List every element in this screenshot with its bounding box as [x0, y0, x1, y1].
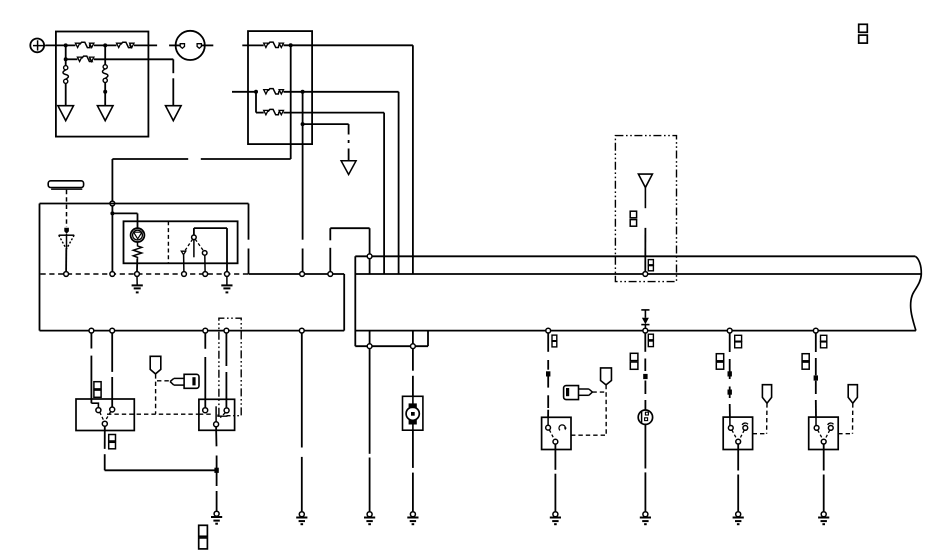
frame box left bottom [40, 330, 345, 332]
splice j2 [546, 371, 550, 376]
connector squares c1 [94, 382, 101, 389]
connector squares c8 [630, 353, 638, 360]
sub terminal s1 [369, 331, 371, 344]
switch blade b [195, 239, 203, 250]
arrow mark [64, 228, 69, 234]
bus solid segment [249, 273, 345, 275]
junction dot B4 [301, 122, 305, 126]
L1 common [102, 421, 107, 426]
switch terminal b [202, 251, 207, 256]
S4 blade dashed [825, 430, 830, 439]
L1 blade dashed [106, 412, 110, 419]
splice j3 [643, 374, 647, 379]
wire S3 common down [737, 444, 739, 450]
circuit breaker CB2 [104, 45, 106, 64]
wire CB1-ground [65, 83, 67, 105]
wire s2-motor [412, 349, 414, 371]
wire B3 drop [302, 92, 304, 124]
bus terminal n6 [225, 272, 230, 277]
flag lead S4f [852, 403, 854, 434]
connector squares c5 [630, 211, 636, 218]
switch terminal a [181, 251, 186, 255]
fuse F1 [75, 43, 79, 47]
ground G7 [299, 512, 304, 517]
connector squares c4 [552, 335, 557, 341]
ground G10 [553, 512, 558, 517]
frame terminal t5 [299, 328, 304, 333]
switch pivot [193, 228, 195, 235]
instrument partition [167, 221, 169, 263]
L2 blade [215, 406, 217, 422]
splice j4 [728, 371, 732, 376]
wire node-lamp [112, 212, 137, 214]
harness top line [355, 255, 915, 257]
wire diode-bus [65, 249, 67, 272]
connector squares c10 [716, 354, 723, 361]
diode triangle [59, 234, 74, 236]
wire B1 drop [290, 45, 292, 159]
sub terminal s2 [412, 331, 414, 344]
junction dot A4 [103, 90, 107, 94]
wire F1-F2 [94, 44, 117, 46]
relay box L2 [199, 399, 235, 430]
key symbol K1 [184, 374, 199, 388]
fuse box A [56, 32, 148, 137]
L1 terminal 1 [96, 408, 101, 413]
frame terminal t4 [224, 328, 229, 333]
flag symbol S2f [601, 368, 612, 385]
relay box L1 [76, 399, 134, 431]
diode D1 [641, 309, 649, 311]
wire F6 out [284, 112, 385, 114]
harness terminal h4 [643, 328, 648, 333]
ground G8 [367, 512, 372, 517]
wire F5 run [303, 91, 399, 93]
ground G9 [410, 512, 415, 517]
fuse box B [248, 31, 312, 144]
connector squares c12 [802, 354, 809, 361]
wire t4-relay [225, 333, 227, 366]
fuse F4 [264, 43, 268, 47]
frame terminal t2 [110, 328, 115, 333]
wire t5-ground [301, 333, 303, 448]
harness terminal h6 [813, 328, 818, 333]
junction dot A1 [64, 43, 68, 47]
S3 blade [732, 430, 737, 439]
S3 terminal 1 [729, 417, 731, 425]
wire drop A1 [65, 45, 67, 59]
S2 common [553, 439, 558, 444]
fuse F2 [117, 43, 121, 47]
frame box right side [343, 274, 345, 331]
wire L2 common down [215, 427, 217, 447]
bus terminal n7 [300, 272, 305, 277]
terminal on frame top [110, 201, 115, 206]
antenna symbol [638, 174, 652, 187]
L2 blade dashed [220, 413, 225, 418]
splice j5 [728, 390, 732, 395]
harness terminal h1 [367, 254, 372, 259]
wire t3-relay [204, 333, 206, 349]
wire j1-ground [216, 473, 218, 487]
ground G4 [136, 276, 138, 285]
wire lamp-bus [136, 259, 138, 272]
wire F4 out [284, 44, 413, 46]
wire S4 common down [823, 444, 825, 450]
switch blade a [185, 239, 192, 250]
ground G3 [166, 106, 182, 121]
junction dot B3 [301, 90, 305, 94]
flag symbol S1 [150, 356, 161, 374]
dashed lead pill [66, 190, 68, 227]
wire B4 drop [302, 124, 304, 240]
circuit breaker CB1 [65, 59, 67, 65]
ignition switch [176, 31, 205, 60]
harness sub-box [355, 345, 428, 347]
harness bottom line [355, 330, 916, 332]
fuse F5 [264, 90, 268, 94]
ground G11 [643, 512, 648, 517]
switch frame [194, 227, 227, 229]
wire ignition-fusebox B [242, 44, 263, 46]
harness mid line [355, 273, 921, 275]
bus terminal n3 [135, 272, 140, 277]
switch box S2 [542, 417, 571, 449]
L1 terminal 2 [110, 407, 115, 412]
L2 terminal 1 [203, 408, 208, 413]
wire CB2-junction [104, 83, 106, 92]
wire h1 down [369, 259, 371, 274]
wire s1-ground [369, 349, 371, 454]
indicator lamp [131, 228, 145, 242]
junction dot n112 [110, 211, 114, 215]
wire CB2-ground [104, 92, 106, 106]
flag symbol S4f [848, 385, 857, 404]
fuse F6 [256, 112, 264, 114]
wire h1 up [369, 228, 371, 254]
dashed bus [41, 273, 249, 275]
frame box left side [39, 204, 41, 331]
S4 terminal 1 [815, 417, 817, 425]
wire F2 out [134, 44, 157, 46]
S4 terminal 2 [828, 426, 833, 431]
switch box S3 [723, 417, 752, 449]
bus terminal n4 [182, 272, 187, 277]
wire h6 down [815, 333, 817, 352]
key symbol K2 [564, 386, 579, 400]
ground G6 [214, 511, 219, 516]
S2 terminal [547, 417, 549, 425]
motor M1 [403, 396, 423, 430]
harness terminal h2 [546, 328, 551, 333]
horn H1 [638, 410, 652, 424]
flag lead S3f [766, 403, 768, 434]
flag symbol S3f [762, 385, 771, 404]
arrow out [341, 161, 356, 175]
wire t1-relay [90, 333, 92, 349]
wire h2 down [547, 333, 549, 352]
wire ignition out [201, 44, 213, 46]
L1 blade [100, 412, 104, 421]
wire A3-F3 [66, 58, 78, 60]
control dash left [107, 413, 199, 415]
S2 blade [549, 430, 554, 440]
wire common run [105, 469, 217, 471]
key dash K2 [592, 391, 604, 393]
junction dot B1 [289, 43, 293, 47]
ground G12 [736, 512, 741, 517]
fuse F3 [77, 57, 81, 61]
wire t2-relay [111, 333, 113, 372]
connector squares c2 [109, 435, 116, 442]
wire B4 run [303, 123, 349, 125]
ground G13 [821, 512, 826, 517]
frame terminal t3 [203, 328, 208, 333]
wire stub x348 with arrow [348, 124, 350, 134]
S4 common [821, 439, 826, 444]
junction dot B2 [254, 90, 258, 94]
battery [30, 39, 44, 53]
splice j6 [814, 375, 818, 380]
ignition terminal 1 [180, 44, 184, 49]
junction dot A2 [103, 43, 107, 47]
wire battery-ignition [169, 44, 180, 46]
S3 terminal 2 [743, 426, 748, 431]
wire S2 common down [554, 444, 556, 449]
junction dot A3 [64, 57, 68, 61]
bus terminal n2 [110, 272, 115, 277]
wire y159 [112, 158, 188, 160]
frame box left top [40, 203, 249, 205]
ignition terminal 2 [197, 44, 201, 49]
connector squares c11 [821, 335, 827, 341]
connector squares c13 [859, 24, 868, 32]
wire x112 node [111, 206, 113, 272]
wire L1 common down [104, 426, 106, 449]
wire battery feed [45, 44, 75, 46]
wire F3 out [94, 58, 173, 60]
harness terminal h5 [727, 328, 732, 333]
flag lead S2f [605, 385, 607, 435]
resistor [133, 242, 141, 259]
bus terminal n5 [203, 272, 208, 277]
switch box S4 [809, 417, 839, 449]
connector squares c7 [648, 334, 653, 340]
ground G1 [58, 106, 74, 121]
bus terminal n8 [328, 272, 333, 277]
connector squares c9 [735, 335, 742, 341]
ground G2 [97, 106, 113, 121]
frame terminal t1 [89, 328, 94, 333]
L2 common [214, 422, 219, 427]
wire motor-ground [412, 430, 414, 468]
S3 common [736, 439, 741, 444]
instrument box [124, 221, 238, 263]
wire B2 drop [255, 92, 257, 113]
wire feeder x384 [383, 113, 385, 274]
wire row2 in [232, 91, 256, 93]
antenna lead [644, 228, 646, 272]
wire feeder x398 [398, 92, 400, 274]
connector squares c6 [648, 260, 653, 265]
connector squares c3 [199, 525, 208, 536]
L2 terminal 2 [224, 408, 229, 413]
ground G5 [226, 276, 228, 285]
splice junction j1 [214, 468, 218, 473]
option box left [219, 318, 241, 416]
S3 blade dashed [740, 430, 745, 439]
option box top [615, 136, 676, 282]
wire drop x112 [111, 159, 113, 201]
sensor pill [48, 181, 83, 188]
harness terminal h3 [643, 272, 648, 277]
wire horn-ground [644, 424, 646, 468]
wire to ground G3 [172, 59, 174, 73]
harness left edge [354, 256, 356, 346]
wire h4-horn [644, 333, 646, 352]
wire h5 down [729, 333, 731, 352]
harness torn edge [911, 256, 922, 330]
S2 arc [559, 425, 565, 431]
S4 blade [818, 430, 823, 439]
frame box right drop [248, 204, 250, 240]
wire feeder x412 [412, 45, 414, 274]
flag lead S1 [155, 374, 157, 414]
wire F5 out [284, 91, 303, 93]
bus terminal n1 [64, 272, 69, 277]
